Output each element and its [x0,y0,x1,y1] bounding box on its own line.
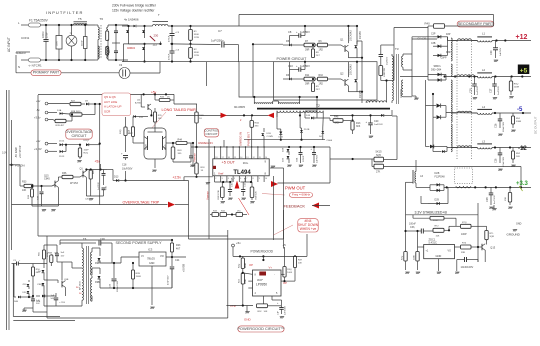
ground -12 [499,169,500,171]
svg-text:PWM OUT: PWM OUT [247,132,251,146]
svg-text:POWER CIRCUIT: POWER CIRCUIT [277,57,308,61]
svg-text:R2Q: R2Q [84,153,89,155]
svg-text:SECOND POWER SUPPLY: SECOND POWER SUPPLY [116,241,163,245]
transformer T2 aux winding [366,101,386,103]
transistor Q5B [61,281,63,288]
svg-text:D29: D29 [435,199,440,202]
diode D1 FR155 [354,45,357,48]
diode D0C [36,295,40,297]
svg-text:Freq = 60kHz: Freq = 60kHz [292,193,311,197]
svg-text:T6: T6 [100,17,104,21]
wire step up [238,15,240,27]
svg-text:1mF/16V: 1mF/16V [374,124,383,126]
svg-text:C30: C30 [490,50,493,55]
svg-text:D28: D28 [435,171,440,175]
svg-text:D2Q7: D2Q7 [84,140,90,142]
svg-text:+2.5v: +2.5v [173,176,182,180]
wire stab links [405,215,407,246]
wire +5 rail [446,76,478,78]
resistor R7 [292,44,304,46]
svg-text:F1 T5A/250V: F1 T5A/250V [29,19,49,23]
resistor R6 [318,43,328,47]
ground network [221,202,222,204]
diode D1B [263,128,265,132]
wire T2 core thick [257,108,390,110]
svg-text:R2B 270K: R2B 270K [218,189,220,199]
wire bottom rail to stage2 [238,61,273,63]
wire D18 riser [316,97,318,111]
svg-text:SECONDARY PART: SECONDARY PART [458,21,494,26]
svg-text:C3B: C3B [486,197,489,202]
capacitor C20 1mF/16V [370,115,372,123]
svg-text:+3.3v: +3.3v [34,116,41,120]
ground C20 [369,136,370,138]
wire standby rails [100,262,121,264]
wire stub [206,62,208,86]
svg-text:10K: 10K [436,235,440,237]
svg-text:C3M37: C3M37 [37,284,45,286]
svg-text:CY+L26: CY+L26 [418,39,427,41]
diode D28 [288,147,290,148]
capacitor C15 150P [229,182,231,190]
diode D3Q [433,45,448,47]
wire +12 join [447,37,449,56]
svg-text:UNREG IN: UNREG IN [198,141,213,145]
capacitor C24 47uF/16V [171,257,173,266]
svg-text:2n2/1kV: 2n2/1kV [387,56,389,65]
svg-text:D1B: D1B [267,133,272,135]
svg-text:+5v: +5v [36,139,41,143]
resistor R1A 3K3 [251,115,253,120]
capacitor C1 220nF/275V [45,25,47,40]
resistor R4A left [132,119,134,127]
ground D29 C6B C4A [288,165,289,167]
svg-text:230: 230 [154,34,159,38]
svg-text:5K15: 5K15 [376,150,383,154]
resistor R36 WY153 [62,175,73,178]
capacitor C10b [32,296,34,299]
svg-text:39R: 39R [305,83,310,86]
resistor R55 220K [42,250,45,259]
ground +3.3 [490,207,491,209]
diode D36 big [437,115,441,119]
svg-text:330K: 330K [194,52,200,54]
svg-text:1uF/100V: 1uF/100V [284,305,286,315]
wire T3 right riser [411,39,413,96]
annotation arrow feedback [312,203,319,209]
svg-text:15R: 15R [505,197,507,201]
wire trip line [12,204,168,206]
svg-text:CIRCUIT: CIRCUIT [205,132,217,136]
svg-text:10nF/100V: 10nF/100V [461,265,474,269]
svg-text:2SC4242: 2SC4242 [349,64,353,75]
wire -5 path [446,112,477,115]
capacitor C15b [103,170,105,174]
svg-text:R7Q: R7Q [401,255,403,260]
svg-text:68R: 68R [55,253,59,255]
resistor R29 4K7 [55,119,66,122]
resistor R23 4K7 [171,240,173,243]
svg-text:-12: -12 [518,146,527,152]
svg-text:C3B: C3B [431,43,436,45]
svg-text:C6H6: C6H6 [327,140,333,142]
row of resistors y213 [212,213,219,217]
resistor R28 4K3 [62,113,70,116]
ground -5 [499,134,500,136]
resistor R20 100P [79,145,81,148]
wire +2.5 rail [184,176,213,178]
svg-text:F12PD48: F12PD48 [435,176,446,179]
svg-text:470uF: 470uF [168,53,170,60]
svg-text:330K: 330K [194,34,200,36]
capacitor C1B 10uF [123,155,128,157]
ground IC3 [151,307,152,309]
wire R40 left riser [427,26,429,80]
svg-text:4x 1N5406: 4x 1N5406 [124,18,139,22]
svg-text:POWERGOOD CIRCUIT™: POWERGOOD CIRCUIT™ [237,326,284,331]
svg-text:C13 152B: C13 152B [245,177,247,187]
label CONTROL CIRCUIT [204,129,219,137]
wire midpoint vertical [361,41,363,103]
svg-text:C10: C10 [288,64,293,68]
diode D9C [99,268,101,274]
capacitor C4b [115,45,117,51]
wire rectifier bottom bus [244,139,325,141]
diode D37 big [426,146,430,148]
svg-text:+5v: +5v [36,99,41,103]
capacitor C30 [495,41,497,48]
svg-text:PWM OUT: PWM OUT [285,186,306,191]
svg-text:GND: GND [244,318,252,322]
wire R43 C16 gnd bus [173,161,191,163]
svg-text:R36: R36 [62,172,67,175]
transformer 3.3 winding [455,168,473,184]
svg-text:1mF/16V: 1mF/16V [498,86,500,95]
wire control links [176,114,203,116]
resistor R1B 12K [251,182,253,187]
wire TL494 top pins [214,147,216,159]
capacitor C6 470uF [171,44,173,51]
wire T2 right lead [386,81,388,103]
resistor R56 [32,264,34,268]
svg-text:WY153: WY153 [70,182,79,185]
svg-text:ZD1B: ZD1B [304,129,310,131]
ground C1P [280,317,281,319]
svg-text:ACT LIKE: ACT LIKE [104,100,117,104]
svg-text:LP0950: LP0950 [256,283,267,287]
svg-text:3,3V: 3,3V [2,152,7,155]
svg-text:C2R: C2R [470,88,473,93]
svg-text:+5 OUT: +5 OUT [222,161,236,165]
svg-text:Q5 & Q6: Q5 & Q6 [104,95,116,99]
resistor R2B 270K [221,182,223,187]
wire to T2 primary [239,96,318,98]
annotation arrow trip [168,202,175,208]
svg-text:1uF/16V: 1uF/16V [500,47,502,56]
svg-text:10/0207: 10/0207 [400,89,403,98]
resistor R1 330K [190,26,192,30]
resistor R52b [512,148,514,152]
resistor R52 10K [257,304,268,308]
inductor common choke +12 winding [458,39,472,41]
wire latch to trip [99,144,101,205]
svg-text:100n: 100n [57,42,59,46]
svg-text:100P: 100P [84,150,90,152]
svg-text:RTQ: RTQ [462,222,467,224]
diode D0B zener [42,283,45,286]
wire left bus 2 [8,90,10,330]
ground R20 [78,161,79,163]
wire divider joins [330,158,374,160]
diode D5 [289,44,292,47]
wire stage2 box [274,62,378,100]
svg-text:GND: GND [149,262,155,265]
svg-text:T5: T5 [78,17,82,21]
ground right of IC [271,166,272,168]
svg-text:1R2: 1R2 [319,49,324,52]
resistor R44 [176,141,187,144]
svg-text:T3: T3 [395,47,399,51]
resistor R33 [24,184,33,187]
svg-text:47uF/16V: 47uF/16V [168,275,170,285]
svg-text:AP-3004: AP-3004 [79,281,82,290]
svg-text:L3: L3 [482,140,486,144]
svg-text:R40: R40 [425,22,431,26]
svg-text:UNREG IN: UNREG IN [239,132,243,146]
svg-text:10K: 10K [22,189,27,192]
annotation arrow PWM right [271,181,278,187]
svg-text:C15 150P: C15 150P [231,177,233,187]
resistor R27 [70,102,81,105]
svg-text:+5V STOP: +5V STOP [18,145,22,158]
svg-text:GND: GND [436,254,442,258]
svg-text:R2B: R2B [136,273,141,275]
svg-text:GROUND: GROUND [507,233,521,237]
svg-text:9C3P: 9C3P [433,220,439,222]
wire +12 rail [448,40,478,42]
wire pair top rail [38,93,174,95]
svg-text:V+: V+ [269,266,273,270]
svg-text:R2B W13: R2B W13 [71,111,81,113]
diode D35 big [437,104,441,108]
wire T4 to +12 diodes [412,36,433,38]
transistor Q9 [82,171,84,178]
svg-text:1K5: 1K5 [335,122,340,125]
annotation arrow left2 [268,113,275,118]
svg-text:SCR: SCR [104,109,111,113]
svg-text:470uF: 470uF [168,35,170,42]
wire R44 to R18 [192,143,194,167]
wire winding taps [451,40,458,42]
svg-text:1uF/50V: 1uF/50V [317,154,319,163]
diode D3R [433,54,448,56]
wire stage1 emitter bus [347,52,349,58]
capacitor C3 [84,25,86,37]
svg-text:3C0*: 3C0* [257,278,263,282]
svg-text:DC OUTPUT: DC OUTPUT [534,116,538,134]
svg-text:27K: 27K [376,170,381,173]
annotation freq leader [262,194,285,196]
svg-text:FEEDBACK: FEEDBACK [284,204,306,209]
diode D29 [287,156,290,159]
diode D0B left [14,296,16,298]
svg-text:OP: OP [249,263,253,267]
wire switch left edge [122,44,124,62]
svg-text:T: T [158,13,160,17]
wire pair to IC [165,142,167,144]
diode D30 [381,114,384,117]
svg-text:IC3: IC3 [148,248,153,252]
svg-text:C2T: C2T [490,88,493,93]
svg-text:C8: C8 [288,30,292,34]
diode D207 [86,143,89,146]
svg-text:115v Voltage doubler rectifier: 115v Voltage doubler rectifier [112,9,155,13]
svg-text:C6B: C6B [296,157,298,162]
svg-text:PRIMARY PART: PRIMARY PART [33,71,60,75]
wire Q2 collector [347,62,349,70]
capacitor C28 [499,148,501,154]
svg-text:-5: -5 [517,107,523,113]
wire pg net [281,280,295,282]
wire pin bus segments [215,181,232,183]
svg-text:R2B 4K7: R2B 4K7 [56,125,66,127]
resistor R7Q left [405,246,407,252]
diode D12 [133,115,136,118]
svg-text:-t- NTCR1: -t- NTCR1 [28,64,42,68]
wire +3.3 rail [416,186,430,188]
wire R1B feed [174,103,197,105]
wire shield line [16,72,119,74]
label OVERVOLTAGE CIRCUIT [66,129,92,139]
svg-text:T6: T6 [83,237,87,241]
wire left bus 1 [6,90,8,330]
diode D0A [43,266,45,268]
capacitor C10 1uF/50V [290,69,299,71]
svg-text:R5B: R5B [48,253,53,255]
svg-text:L4: L4 [482,105,486,109]
svg-text:Vref: Vref [218,172,224,176]
svg-text:1R2: 1R2 [319,83,324,86]
svg-text:1000uF/16V: 1000uF/16V [117,280,119,292]
svg-text:C28: C28 [495,158,498,163]
wire -12 path [447,147,477,149]
svg-text:+ C1B: + C1B [59,302,65,304]
svg-text:+5v: +5v [236,241,241,245]
op-amp U1 TL494 [213,159,269,176]
wire +5 feeds [284,247,286,266]
svg-text:C26: C26 [495,123,498,128]
transformer T2 secondary [277,111,323,113]
svg-text:COM5: COM5 [267,136,274,138]
wire emitter bus [86,195,103,197]
wire mid rail to C7 [170,43,220,46]
wire 3.3 links [406,181,414,183]
svg-text:02M34: 02M34 [127,46,135,50]
diode D38 [433,151,442,153]
svg-text:+5: +5 [520,67,528,74]
svg-text:C7: C7 [218,29,222,33]
svg-text:230v Full-wave bridge rectifi: 230v Full-wave bridge rectifier [112,4,157,8]
wire snubber loop [381,44,394,46]
svg-text:100P: 100P [461,233,467,236]
svg-text:2200P: 2200P [303,155,305,162]
resistor RTQ 100P [461,224,472,228]
svg-text:D3P: D3P [446,34,451,36]
wire HV down right [493,15,495,27]
label #IN4 SHUT DOWN [298,219,318,232]
svg-text:100R: 100R [514,87,520,89]
wire C7 branch down [238,62,240,98]
svg-text:L1: L1 [482,32,486,36]
svg-text:R46: R46 [334,116,339,119]
ground pair [154,159,156,168]
svg-text:Q5B: Q5B [64,279,69,281]
svg-text:R11: R11 [305,74,310,77]
capacitor C1P [281,306,283,308]
label Freq 60kHz [289,193,312,198]
svg-text:115: 115 [153,43,158,47]
wire to TL494 pins [191,146,289,148]
svg-text:I N P U T F I L T E R: I N P U T F I L T E R [46,10,82,15]
diode D1A [60,112,63,115]
svg-text:330R: 330R [516,121,522,123]
svg-text:R33: R33 [22,181,27,184]
resistor R41 100K [242,272,244,274]
svg-text:C20: C20 [374,120,379,123]
svg-text:50V: 50V [51,298,55,300]
label SECONDARY PART [457,21,494,27]
svg-text:220nF: 220nF [82,40,84,46]
svg-text:330uF/16V: 330uF/16V [503,121,505,132]
svg-text:N: N [18,65,20,69]
resistor R35 10K [154,108,156,112]
resistor R5B 68R [50,255,53,263]
capacitor C1B 1uF/50V [55,293,57,297]
svg-text:D3R: D3R [446,52,451,54]
svg-text:+5VSB: +5VSB [182,264,186,272]
svg-text:FR155: FR155 [358,31,362,39]
svg-text:39R: 39R [305,49,310,52]
svg-text:CIRCUIT: CIRCUIT [72,134,88,138]
diode D2 FR155 [354,79,357,82]
capacitor C13 152B [242,182,244,190]
wire cluster bottom buses [12,264,14,317]
resistor RT2 10K [433,228,444,232]
label +5 tag [518,65,530,75]
ground Q15 [42,210,43,212]
wire standby left links [44,244,57,246]
ground T3 [415,98,416,100]
annotation up arrow [235,181,240,189]
resistor R42 680R [242,256,244,258]
label POWERGOOD CIRCUIT [238,326,284,332]
svg-text:C18: C18 [122,164,127,167]
svg-text:470uF/16V: 470uF/16V [503,156,505,167]
svg-text:R3Q: R3Q [120,129,122,134]
wire C1B down to D13 line [125,171,127,181]
wire cluster links [29,296,33,298]
wire FR155 top stub [356,26,358,46]
svg-text:POWERGOOD: POWERGOOD [251,249,274,253]
op-amp IC6 LP2950 [253,270,282,296]
svg-text:SQ5: SQ5 [376,154,381,157]
resistor R13 3K3 [352,120,354,123]
ground VTIP [246,312,247,314]
wire left bus 3 [11,120,13,250]
diode D1B down [276,113,278,129]
svg-text:5.431C: 5.431C [429,241,437,245]
resistor R2 330K [190,44,192,48]
